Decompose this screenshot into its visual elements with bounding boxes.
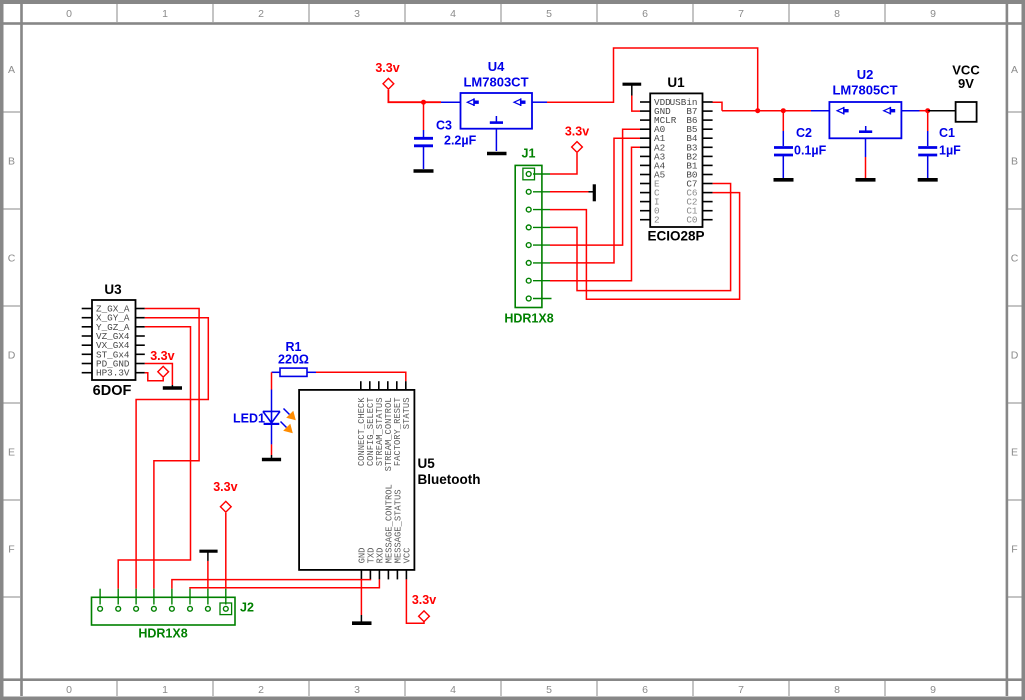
svg-text:8: 8 [834,8,840,20]
ground below C2 [774,178,794,182]
wire U4 common pin to ground (blue) [495,129,497,151]
connector J1 HDR1X8 [504,147,553,326]
svg-text:D: D [1011,350,1019,362]
wire C1 to ground (blue) [927,156,929,178]
svg-text:2.2µF: 2.2µF [444,134,477,148]
svg-text:U5: U5 [418,456,436,471]
svg-text:F: F [1011,544,1017,556]
power symbol VCC 9V [952,63,980,122]
svg-text:C: C [1011,253,1019,265]
svg-text:A: A [8,64,15,76]
svg-text:U2: U2 [857,67,874,82]
svg-text:0: 0 [66,684,72,696]
svg-text:5: 5 [546,684,552,696]
ground below U5 [352,615,372,623]
wire U4 output pin (blue) [532,101,547,103]
svg-text:6: 6 [642,684,648,696]
svg-text:E: E [8,447,15,459]
svg-text:3.3v: 3.3v [213,480,237,494]
svg-text:9: 9 [930,684,936,696]
node junction at C2 [781,108,786,113]
svg-text:LM7805CT: LM7805CT [832,83,897,98]
voltage regulator U4 LM7803CT [461,59,533,129]
svg-text:D: D [8,350,16,362]
svg-text:3.3v: 3.3v [412,593,436,607]
svg-text:A: A [1011,64,1018,76]
svg-text:8: 8 [834,684,840,696]
svg-text:7: 7 [738,684,744,696]
ground below LED1 [262,458,281,462]
svg-text:STATUS: STATUS [402,398,412,430]
capacitor C1 1uF [918,126,961,158]
svg-text:B: B [8,156,15,168]
svg-text:1: 1 [162,8,168,20]
svg-text:C1: C1 [939,126,955,140]
ground below U3 [163,385,182,388]
svg-text:2: 2 [654,215,660,226]
sensor U3 6DOF [82,282,145,399]
wire node to VCC (black) [928,110,956,112]
node junction at C3 [421,100,426,105]
wire J2 pin8 to 3.3v (red) [225,513,227,589]
wire J2 pin7 to ground (red) [207,561,209,589]
svg-text:E: E [1011,447,1018,459]
wire U1 A1 to J1 pin6 (red) [550,138,640,263]
microcontroller U1 ECIO28P [640,75,713,244]
wire 3.3v to U4 input node (red) [388,90,441,102]
svg-text:HDR1X8: HDR1X8 [504,312,553,326]
svg-text:F: F [8,544,14,556]
svg-text:7: 7 [738,8,744,20]
wire U4 input pin (blue) [441,101,461,103]
svg-text:4: 4 [450,684,456,696]
wire U5 RXD to J2 pin6 (red) [190,579,379,588]
power symbol 3.3v (above J2 pin8) [213,480,237,512]
svg-text:1µF: 1µF [939,144,961,158]
wire R1 left to LED1 (blue/red) [272,372,281,411]
ground below U2 [856,178,876,182]
svg-text:3: 3 [354,8,360,20]
svg-text:HP3.3V: HP3.3V [96,368,130,379]
wire U2 common to ground (blue then red) [865,138,867,178]
wire U1 C6 to J1 pin3 (red) [550,193,740,300]
svg-text:3.3v: 3.3v [565,125,589,139]
svg-text:5: 5 [546,8,552,20]
power symbol 3.3v (at U5 VCC) [412,593,436,622]
svg-text:Bluetooth: Bluetooth [418,472,481,487]
svg-text:HDR1X8: HDR1X8 [138,627,187,641]
svg-text:B: B [1011,156,1018,168]
svg-text:U4: U4 [488,59,505,74]
wire U5 VCC to 3.3v (red) [406,579,424,623]
wire J1 pin2 to ground (red) [550,191,589,193]
node junction at top rail [755,108,760,113]
wire U3 Z_GX_A to J2 pin4 (red) [145,309,199,589]
wire U3 HP3.3V to 3.3v (red) [145,373,163,381]
svg-text:1: 1 [162,684,168,696]
wire R1 right to U5 STATUS (blue then red) [307,372,406,381]
svg-text:0: 0 [66,8,72,20]
capacitor C3 2.2uF [414,119,477,148]
ground above J2 pin7 (inverted) [199,551,217,561]
wire LED1 to ground (blue then red) [271,424,273,458]
capacitor C2 0.1uF [774,126,827,158]
ground below C3 [414,169,434,173]
wire node to C1 (red then blue) [927,111,929,146]
svg-text:J2: J2 [240,601,254,615]
module U5 Bluetooth [299,381,480,579]
wire U3 PD_GND to ground (red) [145,364,173,386]
ground below U4 [487,152,507,156]
svg-text:3.3v: 3.3v [375,61,399,75]
svg-text:C2: C2 [796,126,812,140]
wire U1 USBin jog (red) [713,102,723,111]
svg-text:J1: J1 [522,147,536,161]
svg-text:VCC: VCC [402,548,412,564]
wire U3 Y_GZ_A to J2 pin2 (red) [118,327,190,589]
svg-text:2: 2 [258,684,264,696]
power symbol 3.3v (at U3 HP3.3V) [150,349,174,377]
svg-text:3: 3 [354,684,360,696]
connector J2 HDR1X8 [92,589,254,641]
wire J1 pin1 to 3.3v (red) [550,153,577,174]
voltage regulator U2 LM7805CT [829,67,901,138]
power symbol 3.3v (above J1 pin1) [565,125,589,153]
svg-text:2: 2 [258,8,264,20]
svg-text:220Ω: 220Ω [278,353,309,367]
svg-text:4: 4 [450,8,456,20]
resistor R1 220ohm [278,340,309,376]
svg-text:6DOF: 6DOF [93,383,132,399]
wire U4 output to top rail (red) [547,48,758,111]
svg-text:3.3v: 3.3v [150,349,174,363]
wire rail to U2 input (red) [722,110,811,112]
wire U1 A0 to J1 pin5 (red) [550,129,640,245]
power symbol 3.3v (top left, at U4 input) [375,61,399,89]
ground below C1 [918,178,938,182]
svg-text:U1: U1 [667,75,685,90]
wire node to C3 (red then blue) [423,102,425,137]
wire C2 to ground (blue) [782,156,784,178]
wire node to C2 (red then blue) [782,111,784,146]
node junction at C1 [925,108,930,113]
wire U1 C7 to J1 pin4 (red) [550,184,731,291]
svg-text:6: 6 [642,8,648,20]
svg-text:LM7803CT: LM7803CT [463,75,528,90]
LED LED1 [233,409,296,434]
ground above U1 GND (inverted) [623,84,642,95]
ground right of J1 pin2 (rotated) [589,184,595,201]
svg-text:9V: 9V [958,76,974,91]
wire U5 TXD to J2 pin5 (red) [172,579,371,588]
wire U1 A2 to J1 pin7 (red) [550,147,640,280]
svg-text:0.1µF: 0.1µF [794,144,827,158]
svg-text:ECIO28P: ECIO28P [647,229,704,244]
svg-text:C3: C3 [436,119,452,133]
svg-text:LED1: LED1 [233,412,265,426]
svg-text:C: C [8,253,16,265]
wire U2 output pin (blue then red) [901,110,927,112]
wire U5 GND to ground (red) [360,579,362,615]
wire U1 GND pin to ground (red) [632,96,640,112]
wire C3 to ground (blue) [423,147,425,169]
svg-text:9: 9 [930,8,936,20]
wire U2 input pin (blue) [811,110,829,112]
svg-text:C0: C0 [686,215,697,226]
svg-text:U3: U3 [104,282,122,297]
wire U3 X_GY_A to J2 pin3 (red) [136,318,208,589]
